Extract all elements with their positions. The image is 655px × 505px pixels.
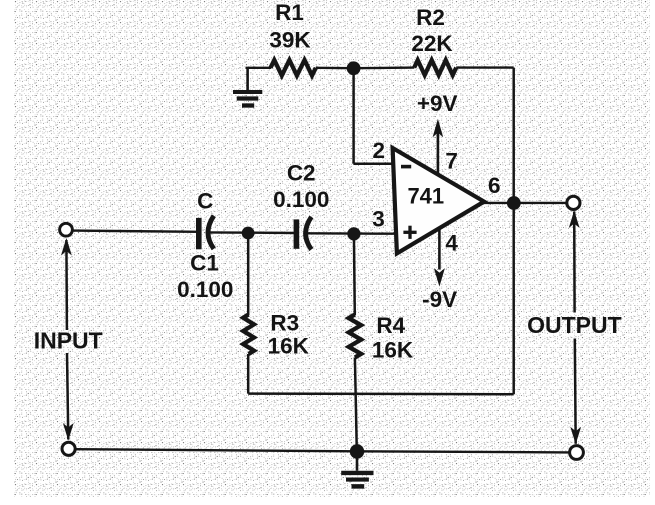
svg-text:0.100: 0.100 — [177, 277, 233, 302]
wire top rail R1 to node — [316, 67, 354, 70]
node E junction (ground) — [350, 444, 364, 458]
svg-text:R3: R3 — [270, 311, 299, 336]
wire top rail node to R2 — [354, 66, 415, 69]
wire R4 to ground rail — [355, 358, 357, 452]
svg-text:C: C — [197, 188, 213, 213]
arrowhead output down — [570, 427, 581, 445]
svg-text:0.100: 0.100 — [273, 187, 329, 212]
wire C2 to pin 3 — [305, 232, 395, 235]
svg-text:16K: 16K — [372, 337, 414, 362]
svg-text:C2: C2 — [287, 160, 316, 185]
wire pin 6 output — [484, 202, 567, 204]
svg-text:R1: R1 — [275, 0, 304, 25]
svg-text:741: 741 — [407, 183, 444, 208]
wire bottom rail left — [76, 449, 357, 451]
capacitor C2 — [296, 217, 311, 250]
capacitor C1 — [199, 216, 214, 250]
wire top rail R2 to right corner — [456, 66, 514, 68]
arrowhead input up — [61, 238, 72, 256]
wire R3 bottom — [247, 354, 250, 394]
wire bottom of box — [248, 392, 514, 395]
ground symbol (R1 left) — [233, 68, 262, 106]
svg-text:OUTPUT: OUTPUT — [527, 312, 622, 338]
wire right feedback vertical — [512, 68, 515, 395]
wire node B down to R3 — [247, 233, 250, 315]
arrowhead output up — [569, 211, 580, 229]
wire output arrow lower — [574, 339, 577, 444]
wire output arrow upper — [573, 212, 576, 313]
svg-text:+9V: +9V — [417, 91, 458, 116]
svg-text:6: 6 — [488, 173, 501, 198]
svg-text:2: 2 — [373, 138, 386, 163]
terminal input bottom — [62, 442, 75, 455]
svg-text:16K: 16K — [268, 334, 310, 359]
svg-text:R2: R2 — [416, 5, 445, 30]
ground symbol (bottom) — [341, 452, 373, 487]
node C junction (C2/R4/pin3) — [347, 227, 360, 240]
wire input arrow upper — [65, 240, 68, 330]
op-amp inverting input minus sign — [401, 165, 411, 169]
terminal output top — [567, 196, 580, 209]
wire top rail left stub — [246, 67, 272, 69]
wire node A down — [352, 68, 355, 164]
svg-text:39K: 39K — [269, 28, 311, 53]
svg-text:C1: C1 — [190, 250, 219, 275]
op-amp non-inverting plus sign — [403, 226, 416, 239]
node B junction (C1/C2/R3) — [242, 227, 255, 240]
wire bottom rail right — [357, 451, 569, 452]
svg-text:3: 3 — [372, 206, 385, 231]
wire C1 to C2 — [207, 231, 297, 234]
svg-text:INPUT: INPUT — [34, 328, 103, 354]
terminal input top — [60, 223, 73, 236]
resistor R4 — [349, 315, 361, 358]
wire -9V supply — [438, 229, 441, 269]
arrowhead +9V up — [433, 119, 444, 138]
resistor R3 — [243, 315, 254, 355]
wire +9V supply — [437, 123, 440, 176]
wire into pin 2 — [354, 163, 395, 166]
svg-text:7: 7 — [445, 149, 458, 174]
terminal output bottom — [570, 446, 584, 460]
svg-text:-9V: -9V — [422, 287, 457, 312]
resistor R2 — [414, 60, 456, 75]
wire input arrow lower — [67, 353, 68, 440]
wire input to C1 — [73, 231, 199, 232]
arrowhead input down — [63, 423, 74, 441]
resistor R1 — [271, 60, 316, 76]
wire node C down to R4 — [353, 234, 356, 315]
arrowhead -9V down — [434, 268, 445, 287]
svg-text:R4: R4 — [376, 313, 405, 338]
svg-text:4: 4 — [445, 230, 458, 255]
node A junction (R1/R2/pin2) — [347, 61, 361, 75]
op-amp U1 (741) body — [393, 148, 485, 253]
svg-text:22K: 22K — [411, 31, 453, 56]
node D junction (output/feedback) — [507, 196, 521, 210]
